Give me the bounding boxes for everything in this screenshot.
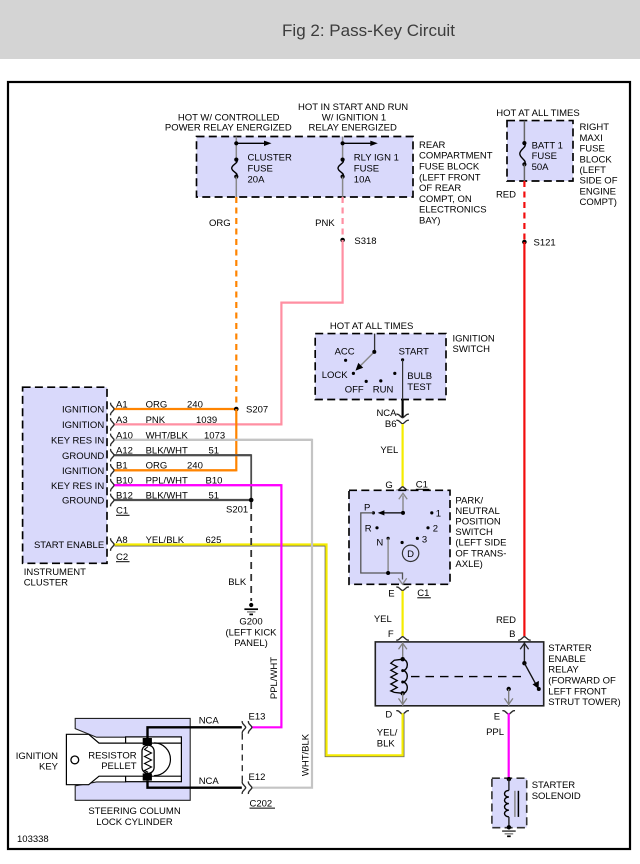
svg-text:FUSE: FUSE [354,164,379,175]
svg-text:G200: G200 [239,617,262,628]
contact 3 [416,537,419,540]
ignition switch feed stub [374,334,376,352]
resistor pellet contacts [143,738,152,745]
svg-text:OFF: OFF [345,384,364,395]
svg-text:103338: 103338 [17,834,49,845]
svg-text:KEY RES IN: KEY RES IN [51,481,104,492]
svg-text:BLK: BLK [228,577,247,588]
svg-text:SOLENOID: SOLENOID [532,791,581,802]
relay actuation dashed link [411,676,527,678]
svg-text:FUSE: FUSE [248,164,273,175]
wire: BLK/WHT 51 from A12 [115,454,252,456]
node: rly ign fuse tap [341,141,345,145]
svg-text:625: 625 [206,535,222,546]
svg-text:B6: B6 [385,419,397,430]
svg-text:B: B [509,629,515,640]
svg-text:Fig 2: Pass-Key Circuit: Fig 2: Pass-Key Circuit [282,21,455,40]
svg-text:ENGINE: ENGINE [580,186,616,197]
svg-text:GROUND: GROUND [62,496,104,507]
key ring hole [71,756,79,764]
svg-text:SIDE OF: SIDE OF [580,176,618,187]
svg-text:P: P [364,502,370,513]
svg-text:PPL: PPL [486,727,504,738]
svg-text:NCA: NCA [199,716,220,727]
svg-text:D: D [407,549,414,560]
svg-text:CLUSTER: CLUSTER [24,578,68,589]
ignition key [66,734,181,784]
svg-text:PELLET: PELLET [101,761,137,772]
ground G200 [249,603,253,607]
svg-text:YEL/: YEL/ [377,728,398,739]
svg-text:STRUT TOWER): STRUT TOWER) [548,697,620,708]
svg-text:RIGHT: RIGHT [580,122,610,133]
svg-text:START ENABLE: START ENABLE [34,540,104,551]
svg-text:F: F [388,629,394,640]
svg-text:RED: RED [496,615,516,626]
svg-text:INSTRUMENT: INSTRUMENT [24,567,86,578]
svg-text:A3: A3 [116,415,128,426]
svg-text:YEL: YEL [374,614,392,625]
svg-text:POWER RELAY ENERGIZED: POWER RELAY ENERGIZED [165,123,292,134]
wire: YEL/BLK A8 from cluster to relay D [115,546,404,757]
svg-text:IGNITION: IGNITION [16,751,58,762]
svg-text:50A: 50A [532,162,550,173]
wire: start contact down inside switch [402,360,404,400]
contact D (circle) [401,541,404,544]
svg-text:(LEFT FRONT: (LEFT FRONT [419,172,481,183]
contact 1 [430,511,433,514]
svg-text:COMPT, ON: COMPT, ON [419,194,472,205]
svg-text:GROUND: GROUND [62,451,104,462]
svg-text:RESISTOR: RESISTOR [88,750,137,761]
relay switch arm [524,663,536,685]
svg-text:FUSE BLOCK: FUSE BLOCK [419,162,480,173]
svg-text:WHT/BLK: WHT/BLK [301,733,312,776]
svg-text:SWITCH: SWITCH [453,344,491,355]
svg-text:(FORWARD OF: (FORWARD OF [548,676,616,687]
right maxi fuse block box [507,121,573,181]
svg-text:E12: E12 [249,772,266,783]
svg-text:IGNITION: IGNITION [62,466,104,477]
ignition switch rotor arm [358,352,375,369]
svg-text:PPL/WHT: PPL/WHT [269,657,280,699]
svg-text:PANEL): PANEL) [234,638,268,649]
svg-text:RELAY ENERGIZED: RELAY ENERGIZED [309,123,397,134]
svg-text:STEERING COLUMN: STEERING COLUMN [88,806,181,817]
svg-text:YEL/BLK: YEL/BLK [146,535,185,546]
svg-text:FUSE: FUSE [532,151,557,162]
svg-text:S207: S207 [246,405,268,416]
steering column lock cylinder body [75,718,190,800]
svg-text:RLY IGN 1: RLY IGN 1 [354,153,399,164]
p/n switch: common node [401,511,405,515]
wire: WHT/BLK A10 down to E12 [115,440,313,788]
p/n switch: arrow up to G [402,496,404,513]
ignition switch box [315,334,446,400]
dashed link E13-E12 (C202) [241,734,243,782]
svg-text:HOT AT ALL TIMES: HOT AT ALL TIMES [496,108,579,119]
svg-text:RUN: RUN [373,384,394,395]
svg-text:ELECTRONICS: ELECTRONICS [419,205,487,216]
relay switch: E contact [507,687,511,691]
fuse: CLUSTER FUSE 20A [234,158,238,162]
svg-text:OF REAR: OF REAR [419,183,461,194]
svg-text:2: 2 [433,524,438,535]
wire: PNK solid S318 to instrument cluster A3 [115,240,343,424]
svg-text:RED: RED [496,190,516,201]
starter solenoid box [492,778,527,828]
rly ign 1 fuse feed wire [342,137,344,160]
wire: BLK dashed S201 to G200 [250,502,252,601]
relay coil loops [403,659,408,693]
svg-text:10A: 10A [354,174,372,185]
resistor pellet arc [154,743,170,776]
svg-text:S121: S121 [534,238,556,249]
park/neutral position switch box [349,490,450,584]
resistor pellet zigzag [145,747,152,773]
svg-text:STARTER: STARTER [532,780,576,791]
wire: key resistor to E12 (NCA) [148,781,242,788]
svg-text:BULB: BULB [407,371,432,382]
svg-text:PNK: PNK [146,415,166,426]
node S207 [234,407,239,412]
solenoid winding [507,777,511,781]
svg-text:S201: S201 [226,505,248,516]
svg-text:POSITION: POSITION [455,517,501,528]
svg-text:BATT 1: BATT 1 [532,140,563,151]
wire: ignition switch output to B6 [402,400,404,418]
svg-text:LEFT FRONT: LEFT FRONT [548,686,607,697]
svg-text:NCA: NCA [376,408,397,419]
svg-text:G: G [385,480,392,491]
svg-text:REAR: REAR [419,140,446,151]
instrument cluster box [23,387,107,563]
svg-text:S318: S318 [354,236,376,247]
wire: BLK/WHT 51 from B12 [115,499,252,501]
svg-text:E: E [388,588,394,599]
svg-text:1: 1 [436,508,441,519]
node S121 [522,240,527,245]
svg-text:1039: 1039 [196,415,217,426]
svg-text:(LEFT: (LEFT [580,165,607,176]
svg-text:RELAY: RELAY [548,665,579,676]
svg-text:E13: E13 [249,712,266,723]
svg-text:HOT AT ALL TIMES: HOT AT ALL TIMES [330,321,413,332]
p/n switch: arm arrow to P [380,512,404,514]
svg-text:(LEFT SIDE: (LEFT SIDE [455,538,506,549]
svg-text:PNK: PNK [315,218,335,229]
arrow: rly ign fuse feed [343,142,371,144]
wire: BLK/WHT A12 to S201 [115,455,252,500]
svg-text:YEL: YEL [380,445,398,456]
wire: WHT/BLK 1073 from A10 [115,439,313,441]
rear compartment fuse block box [197,137,414,198]
svg-text:CLUSTER: CLUSTER [248,153,292,164]
svg-text:ORG: ORG [209,218,231,229]
svg-text:START: START [399,346,429,357]
svg-text:ACC: ACC [335,346,355,357]
svg-text:TEST: TEST [407,382,431,393]
svg-text:LOCK: LOCK [322,370,349,381]
svg-text:IGNITION: IGNITION [453,333,495,344]
wire: ORG 240 from B1 [115,469,237,471]
svg-text:MAXI: MAXI [580,133,603,144]
svg-text:LOCK CYLINDER: LOCK CYLINDER [96,817,173,828]
svg-text:STARTER: STARTER [548,643,592,654]
svg-text:COMPARTMENT: COMPARTMENT [419,151,493,162]
svg-text:COMPT): COMPT) [580,197,617,208]
relay coil branch F to D [402,642,404,659]
svg-text:NCA: NCA [199,776,220,787]
svg-text:3: 3 [422,535,427,546]
svg-text:OF TRANS-: OF TRANS- [455,548,506,559]
svg-text:AXLE): AXLE) [455,559,482,570]
wire: ORG dashed from cluster fuse to S207 [235,197,237,409]
fuse: BATT 1 FUSE 50A [523,121,525,144]
wire: N to bottom rail [387,538,389,573]
svg-text:(LEFT KICK: (LEFT KICK [225,627,277,638]
wire: PPL/WHT B10 from B10 [115,484,282,486]
svg-text:BAY): BAY) [419,216,440,227]
node: cluster fuse tap [234,141,238,145]
svg-text:E: E [494,712,500,723]
starter enable relay box [375,642,543,706]
wire: P loop to E [361,513,403,580]
p/n switch: arrow down to E [398,578,406,584]
ground at starter solenoid [507,825,511,829]
svg-text:20A: 20A [248,174,266,185]
wire: key resistor to E13 (NCA) [148,727,242,738]
svg-text:D: D [385,709,392,720]
svg-text:NEUTRAL: NEUTRAL [455,506,499,517]
wire: PPL relay E to starter solenoid [508,713,510,779]
svg-text:KEY RES IN: KEY RES IN [51,436,104,447]
wire: YEL p/n switch E to relay F [402,591,404,636]
wire: PNK dashed from rly ign fuse to S318 [342,197,344,240]
relay coil resistor zigzag [391,659,403,693]
wire: PPL/WHT B10 down to E13 [115,485,282,727]
node S318 [340,238,345,243]
svg-text:BLK: BLK [377,738,396,749]
resistor pellet body [142,745,154,773]
svg-text:R: R [365,524,372,535]
fuse: RLY IGN 1 FUSE 10A [341,158,345,162]
svg-text:SWITCH: SWITCH [455,527,493,538]
svg-text:BLOCK: BLOCK [580,154,613,165]
wire: RED dashed from batt fuse [523,181,525,242]
lock cylinder face [126,737,182,782]
wire: ORG S207 down to B1 [115,409,237,470]
wire: ORG 240 from A1 [115,408,237,410]
svg-text:ENABLE: ENABLE [548,654,586,665]
svg-text:A8: A8 [116,535,128,546]
cluster fuse F1 feed wire [235,137,237,160]
arrow: cluster fuse feed [236,142,264,144]
svg-text:FUSE: FUSE [580,144,605,155]
node S201 [249,498,254,503]
svg-text:PARK/: PARK/ [455,495,483,506]
contact 2 [426,526,429,529]
svg-text:KEY: KEY [39,761,59,772]
relay switch: B contact [523,642,525,663]
title bar [0,0,640,59]
wire: RED solid to relay B [523,242,525,636]
svg-text:IGNITION: IGNITION [62,420,104,431]
wire: YEL ignition switch to park/neutral G [402,424,404,486]
svg-text:IGNITION: IGNITION [62,405,104,416]
svg-text:N: N [376,537,383,548]
